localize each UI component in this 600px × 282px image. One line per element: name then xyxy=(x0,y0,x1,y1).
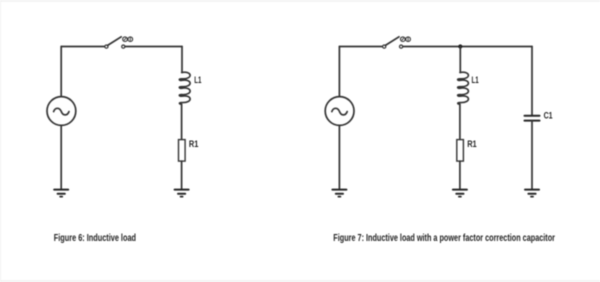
switch SW1 fig6: circled 0 indicator xyxy=(123,37,128,42)
resistor R1 fig7 (box) xyxy=(457,140,464,162)
wire: fig6 from AC source to ground xyxy=(60,125,62,189)
wire: fig7 top horizontal from switch right terminal to capacitor corner xyxy=(403,46,532,48)
wire: fig7 between inductor and resistor xyxy=(459,104,461,140)
inductor L1 fig6 xyxy=(179,72,190,104)
svg-text:Figure 6: Inductive load: Figure 6: Inductive load xyxy=(54,233,136,244)
faint bottom border line xyxy=(0,280,600,282)
inductor L1 fig7 xyxy=(458,72,469,104)
wire: fig7 from resistor to ground xyxy=(459,161,461,189)
node: fig7 junction dot at L1 branch xyxy=(458,44,462,48)
wire: fig7 from capacitor bottom plate to ground xyxy=(531,121,533,190)
wire: fig7 from AC source to ground xyxy=(338,125,340,189)
wire: fig6 top horizontal from switch right terminal to right corner xyxy=(125,46,182,48)
ground: fig6 under source xyxy=(54,190,68,197)
ground: fig7 under capacitor xyxy=(525,190,539,197)
switch SW1 fig6: right terminal circle xyxy=(122,45,125,48)
svg-text:R1: R1 xyxy=(189,139,199,149)
ground: fig7 under source xyxy=(332,190,346,197)
ground: fig7 under R1 xyxy=(453,190,467,197)
switch SW2 fig7: circled 1 indicator xyxy=(406,37,411,42)
svg-text:L1: L1 xyxy=(472,75,479,85)
wire: fig7 middle vertical from junction to inductor xyxy=(459,47,461,73)
AC source V1 fig6 xyxy=(47,97,76,126)
svg-text:L1: L1 xyxy=(194,75,201,85)
ground: fig6 under R1 xyxy=(175,190,189,197)
capacitor C1 fig7 xyxy=(525,116,540,121)
wire: fig6 right vertical from top corner to inductor xyxy=(181,47,183,73)
faint top border line xyxy=(0,0,600,2)
faint left border line xyxy=(0,0,2,282)
wire: fig6 top horizontal from left corner to switch left terminal xyxy=(61,46,105,48)
wire: fig7 top horizontal from left corner to switch left terminal xyxy=(339,46,383,48)
switch SW2 fig7: right terminal circle xyxy=(400,45,403,48)
svg-text:C1: C1 xyxy=(544,111,553,121)
wire: fig6 left vertical from top node to AC source xyxy=(60,47,62,97)
switch SW1 fig6: blade (open) xyxy=(108,37,122,46)
AC source V2 fig7 xyxy=(325,97,354,126)
switch SW1 fig6: circled 1 indicator xyxy=(128,37,133,42)
switch SW2 fig7: circled 0 indicator xyxy=(401,37,406,42)
svg-text:R1: R1 xyxy=(467,139,477,149)
switch SW2 fig7: blade (open) xyxy=(385,37,399,46)
wire: fig6 from resistor to ground xyxy=(181,161,183,189)
wire: fig7 right vertical from corner to capacitor top plate xyxy=(531,47,533,116)
switch SW2 fig7: left terminal circle xyxy=(383,45,386,48)
resistor R1 fig6 (box) xyxy=(179,140,186,162)
switch SW1 fig6: left terminal circle xyxy=(105,45,108,48)
wire: fig7 left vertical from top node to AC source xyxy=(338,47,340,97)
svg-text:Figure 7: Inductive load with: Figure 7: Inductive load with a power fa… xyxy=(333,233,555,244)
wire: fig6 between inductor and resistor xyxy=(181,104,183,140)
